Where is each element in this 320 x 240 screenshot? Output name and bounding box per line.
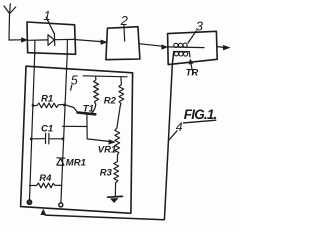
svg-text:3: 3 [196, 19, 204, 34]
middle rail wire [61, 55, 67, 203]
feedback arrowhead [41, 209, 46, 215]
wire R3 to ground [114, 183, 116, 196]
ground [108, 196, 123, 202]
wire VR1 to R3 [116, 155, 118, 162]
varicap diode in box1 [27, 33, 75, 45]
wire drop from box1 right node [66, 39, 68, 55]
feedback line 4 [45, 52, 174, 220]
transformer TR primary [168, 43, 204, 47]
wire box2 to box3 [140, 44, 162, 46]
emitter wire to VR1 wiper arrow [87, 139, 110, 142]
svg-text:VR1: VR1 [98, 145, 116, 156]
leader of label 3 [188, 31, 196, 43]
resistor R3 [114, 162, 119, 184]
arrowhead into box2 [101, 40, 107, 44]
wire R1 junction to T1 base [65, 105, 79, 113]
capacitor C1 [31, 133, 63, 144]
oscillator box 5 [21, 66, 133, 213]
box 2 [106, 27, 140, 60]
antenna [4, 4, 16, 40]
wire antenna to box1 [9, 39, 22, 41]
svg-text:R4: R4 [39, 173, 52, 184]
output arrowhead [223, 45, 230, 50]
junction dots [32, 104, 35, 107]
box 1 (tuner) [27, 22, 76, 54]
transformer TR secondary [174, 51, 190, 57]
svg-text:MR1: MR1 [66, 158, 86, 169]
wire R2 to VR1 [117, 106, 120, 128]
emitter junction wire to rail [63, 125, 87, 127]
collector load resistor [94, 76, 99, 104]
svg-text:R1: R1 [41, 94, 53, 105]
svg-text:4: 4 [176, 120, 183, 134]
svg-text:T1: T1 [83, 103, 94, 114]
svg-text:R3: R3 [100, 168, 113, 179]
supply rail [83, 76, 127, 77]
resistor R4 [30, 183, 62, 188]
leader of label 5 [71, 85, 72, 90]
FIG.1 label [184, 107, 217, 123]
leader of label 2 [123, 25, 126, 41]
output wire of box3 [217, 46, 223, 49]
box 3 (output stage) [168, 31, 218, 64]
wire box1 to box2 [76, 40, 102, 42]
arrowhead into box3 [162, 45, 168, 49]
arrowhead into box1 [21, 38, 27, 43]
transistor T1 [78, 104, 96, 139]
left rail wire [30, 55, 35, 200]
TR leader arrow [191, 63, 193, 74]
terminal node right [59, 203, 63, 207]
svg-text:C1: C1 [41, 123, 53, 134]
resistor R1 [33, 103, 65, 108]
leader of label 1 [46, 17, 54, 33]
svg-text:FIG.1.: FIG.1. [184, 107, 217, 122]
leader of label 4 [169, 131, 177, 141]
variable resistor VR1 [115, 128, 120, 155]
resistor R2 [119, 77, 124, 106]
svg-text:1: 1 [44, 9, 51, 23]
svg-text:R2: R2 [104, 96, 117, 107]
wire drop from box1 left node [34, 40, 36, 55]
terminal node left [27, 200, 31, 204]
diode MR1 [57, 158, 65, 166]
